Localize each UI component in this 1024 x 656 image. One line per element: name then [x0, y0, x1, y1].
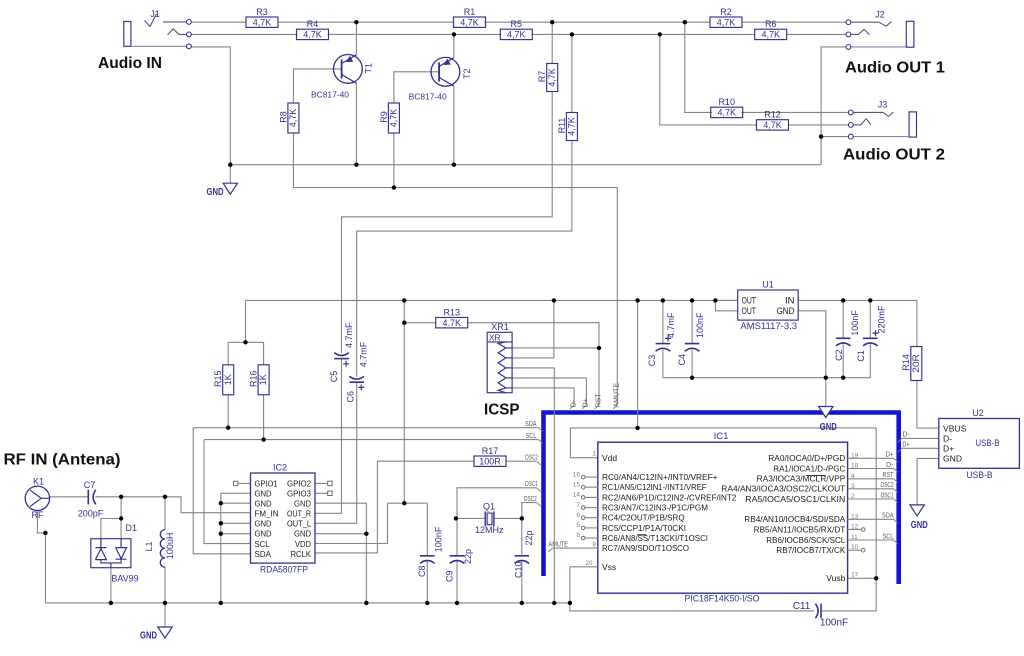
wire IC1 Vusb pin 17 [848, 577, 877, 579]
svg-text:C2: C2 [834, 349, 844, 361]
svg-text:4,7K: 4,7K [288, 109, 298, 128]
junction R10 tap / tip rail [683, 20, 687, 24]
junction R13 left / VDD riser [402, 321, 406, 325]
resistor R13 [436, 307, 468, 328]
svg-text:R17: R17 [482, 446, 499, 456]
resistor R14 [901, 347, 922, 381]
svg-text:GND: GND [255, 490, 272, 499]
wire tap to R10 [685, 22, 712, 112]
svg-text:4,7K: 4,7K [717, 17, 736, 27]
junction 3.3V rail / C3 [661, 298, 665, 302]
junction bottom rail / Vss [568, 601, 572, 605]
junction 3.3V rail / C1 [868, 298, 872, 302]
wire R12 to J3 ring [788, 124, 848, 126]
svg-text:SDA: SDA [882, 513, 894, 520]
resistor R3 [246, 7, 278, 28]
wire U1 OUT pins to rail [715, 299, 737, 301]
svg-text:PIC18F14K50-I/SO: PIC18F14K50-I/SO [685, 593, 760, 604]
svg-text:OSC1: OSC1 [881, 492, 894, 499]
junction T2 collector / ring rail [452, 32, 456, 36]
junction T2 emitter / ground rail [452, 163, 456, 167]
svg-text:RC0/AN4/C12IN+/INT0/VREF+: RC0/AN4/C12IN+/INT0/VREF+ [602, 473, 718, 482]
svg-text:1K: 1K [258, 374, 268, 385]
wire VDD horizontal [388, 502, 428, 504]
junction R9 / AMUTE rail [392, 185, 396, 189]
junction antenna line / D1 [119, 495, 123, 499]
pad GPIO1 unconnected [234, 481, 238, 485]
svg-text:200pF: 200pF [78, 509, 104, 519]
svg-text:1K: 1K [223, 374, 233, 385]
svg-text:6: 6 [576, 512, 580, 519]
wire GND stub bottom left [164, 603, 166, 627]
wire R7 top [551, 22, 553, 63]
svg-text:RF: RF [32, 510, 44, 520]
junction R15-R16 top tee [243, 340, 247, 344]
svg-text:VDD: VDD [295, 540, 311, 549]
junction T1 emitter / ground rail [354, 163, 358, 167]
svg-text:BC817-40: BC817-40 [311, 90, 349, 99]
wire C10 top/bottom [521, 518, 523, 555]
wire C3 top/bottom [662, 300, 664, 343]
IC1 pin 12 stub unconnected [848, 524, 866, 532]
junction R11 tap / ring rail [570, 32, 574, 36]
wire R13 left [404, 322, 436, 324]
junction bottom rail / C9 [455, 601, 459, 605]
svg-text:IC2: IC2 [273, 463, 287, 473]
svg-text:XR: XR [489, 333, 501, 343]
wire C7 to FM_IN / D1 / L1 [95, 497, 250, 513]
svg-text:RA0/IOCA0/D+/PGD: RA0/IOCA0/D+/PGD [768, 454, 845, 463]
wire audio tip rail y=22 J1 to R3 [191, 21, 246, 23]
wire D1 top connections [120, 497, 122, 519]
svg-text:C5: C5 [329, 371, 339, 383]
junction J3 sleeve / ground riser [819, 134, 823, 138]
svg-text:RB5/AN11/IOCB5/RX/DT: RB5/AN11/IOCB5/RX/DT [754, 526, 846, 535]
capacitor C10 22p [514, 530, 535, 578]
svg-text:Q1: Q1 [483, 502, 495, 512]
svg-text:RB6/IOCB6/SCK/SCL: RB6/IOCB6/SCK/SCL [766, 536, 846, 545]
svg-text:R1: R1 [464, 7, 476, 17]
svg-text:GPIO1: GPIO1 [255, 479, 278, 488]
svg-text:18: 18 [851, 463, 859, 470]
svg-text:4,7K: 4,7K [567, 117, 577, 136]
resistor R8 [278, 103, 299, 133]
svg-text:C4: C4 [677, 354, 687, 366]
svg-text:R16: R16 [249, 371, 259, 388]
wire OSC2 net from crystal right [522, 503, 537, 519]
junction Vdd net tee [635, 426, 639, 430]
svg-text:RST: RST [595, 393, 602, 408]
connector J1 audio jack [124, 9, 192, 49]
junction Vusb pin / riser [874, 576, 878, 580]
junction 3.3V rail / IC1 Vdd riser [635, 298, 639, 302]
wire 3.3V vertical to VDD line [403, 300, 405, 503]
svg-text:4,7K: 4,7K [303, 30, 322, 40]
junction T1 collector / tip rail [354, 20, 358, 24]
svg-text:8: 8 [576, 532, 580, 539]
resistor R7 [537, 64, 558, 92]
junction IC2 GND pin5 [219, 521, 223, 525]
resistor R1 [454, 7, 486, 28]
junction 3.3V rail / R13 riser [402, 298, 406, 302]
capacitor C1 220mF [856, 305, 886, 362]
svg-text:4,7K: 4,7K [389, 109, 399, 128]
svg-text:R11: R11 [557, 118, 567, 134]
junction R7 tap / tip rail [550, 20, 554, 24]
wire T2 base to R9 [394, 72, 439, 103]
IC1 pin 10 stub unconnected [848, 544, 866, 552]
net tick AMUTE [613, 405, 617, 409]
svg-text:BAV99: BAV99 [111, 574, 138, 584]
wire crystal Q1 row [456, 517, 485, 519]
svg-text:D+: D+ [886, 452, 894, 459]
svg-text:11: 11 [851, 534, 858, 541]
wire T1 collector [355, 22, 357, 54]
svg-text:5: 5 [576, 522, 580, 529]
junction audio ground rail / J1 sleeve [228, 163, 232, 167]
svg-text:GND: GND [140, 630, 157, 642]
svg-text:C11: C11 [793, 601, 811, 612]
svg-text:C1: C1 [856, 350, 866, 362]
wire ICSP pin3 GND down to bottom rail [512, 368, 554, 603]
svg-text:R8: R8 [278, 111, 288, 123]
svg-text:16: 16 [573, 471, 581, 478]
svg-text:D+: D+ [943, 444, 954, 454]
wire R17 right OSC2 net [506, 460, 536, 462]
svg-text:XR1: XR1 [491, 322, 509, 332]
wire R3 to R1 [278, 21, 454, 23]
junction bottom rail / IC2 GND right [364, 601, 368, 605]
junction IC2 GND pin6 [219, 532, 223, 536]
wire to J3 sleeve [821, 136, 848, 138]
junction bottom rail / C8 [425, 601, 429, 605]
wire ICSP pin1 MCLR [512, 347, 599, 349]
resistor R12 [757, 110, 789, 131]
wire VDD net to IC1 Vdd and Vusb [637, 300, 639, 428]
wire AMUTE rail y=188 [293, 188, 617, 405]
svg-text:U1: U1 [762, 279, 774, 289]
svg-text:13: 13 [851, 513, 859, 520]
svg-text:R6: R6 [765, 19, 777, 29]
ground symbol audio GND [207, 183, 238, 198]
capacitor C5 4.7mF [329, 322, 354, 382]
svg-text:100nF: 100nF [820, 618, 848, 629]
resistor R17 [474, 446, 506, 467]
svg-text:GND: GND [820, 421, 837, 433]
svg-text:FM_IN: FM_IN [255, 510, 279, 519]
svg-text:OSC2: OSC2 [881, 482, 894, 489]
wire GND stub below audio rail [229, 165, 231, 184]
wire R6 to J2 ring [787, 33, 847, 35]
svg-text:IN: IN [785, 296, 795, 306]
svg-text:14: 14 [573, 492, 581, 499]
capacitor C3 4.7mF [647, 312, 676, 366]
wire R14 bottom to USB VBUS [917, 381, 939, 428]
svg-text:C9: C9 [445, 570, 455, 582]
junction crystal right / C10 / OSC2 [520, 516, 524, 520]
svg-text:T2: T2 [462, 68, 472, 79]
transistor T1 BC817-40 [311, 55, 373, 100]
junction 3.3V rail / C2 [841, 298, 845, 302]
svg-text:GPIO3: GPIO3 [287, 490, 311, 499]
svg-text:OSC2: OSC2 [524, 496, 537, 503]
svg-text:RA5/IOCA5/OSC1/CLKIN: RA5/IOCA5/OSC1/CLKIN [745, 495, 845, 504]
junction 3.3V rail / U1 OUT [713, 298, 717, 302]
svg-text:SCL: SCL [526, 433, 537, 440]
wire C6 to IC2 OUT_L [315, 383, 357, 524]
svg-text:2: 2 [851, 493, 855, 500]
pad GPIO2 unconnected [328, 481, 332, 485]
wire R2 to J2 tip [742, 21, 846, 23]
svg-text:RC5/CCP1/P1A/T0CKI: RC5/CCP1/P1A/T0CKI [602, 524, 686, 533]
wire IC2 VDD up to 3.3V [315, 503, 388, 543]
svg-text:7: 7 [576, 502, 580, 509]
svg-text:SDA: SDA [255, 550, 272, 559]
resistor R6 [755, 19, 787, 40]
resistor R2 [710, 7, 742, 28]
wire tap to R12 [660, 34, 757, 125]
wire J1 sleeve to ground rail [191, 47, 230, 165]
junction cap ground rail / U1 GND [824, 376, 828, 380]
svg-text:R5: R5 [511, 19, 523, 29]
wire ICSP pin2 VDD from rail [512, 300, 554, 358]
wire R8 bottom to AMUTE rail [292, 133, 294, 188]
svg-text:100nF: 100nF [850, 310, 860, 336]
junction R12 tap / ring rail [658, 32, 662, 36]
svg-text:U2: U2 [972, 408, 984, 418]
svg-text:OUT_R: OUT_R [287, 510, 311, 519]
wire C5 to IC2 OUT_R [315, 359, 342, 513]
svg-text:RB4/AN10/IOCB4/SDI/SDA: RB4/AN10/IOCB4/SDI/SDA [744, 515, 846, 524]
svg-text:4.7K: 4.7K [442, 318, 461, 328]
wire rail down to R14 [916, 300, 918, 346]
svg-text:SDA: SDA [525, 421, 537, 428]
svg-text:4,7K: 4,7K [717, 108, 736, 118]
svg-text:GND: GND [255, 520, 272, 529]
svg-text:R7: R7 [537, 71, 547, 83]
svg-text:Vusb: Vusb [826, 573, 845, 583]
wire IC2 RCLK to R17 [315, 461, 474, 553]
svg-text:RST: RST [883, 472, 895, 479]
wire R4 to R5 [328, 33, 502, 35]
wire T1 base to R8 [293, 69, 341, 103]
junction IC2 GND right tee [364, 532, 368, 536]
svg-text:4,7K: 4,7K [460, 17, 479, 27]
svg-text:17: 17 [851, 571, 859, 578]
svg-text:4.7mF: 4.7mF [359, 341, 369, 367]
IC1 left pin stubs RC0-RC6 [585, 476, 598, 478]
svg-text:USB-B: USB-B [976, 438, 1000, 448]
svg-text:22p: 22p [463, 549, 473, 564]
svg-text:J3: J3 [878, 100, 888, 110]
wire R11 bottom to C6 [357, 141, 572, 377]
svg-text:1: 1 [592, 451, 596, 458]
svg-text:D-: D- [943, 434, 952, 444]
wire R7 bottom to C5 [342, 92, 553, 354]
wire +3.3V rail y=300 left of U1 [246, 299, 738, 301]
svg-text:Vss: Vss [602, 562, 616, 572]
svg-text:OUT_L: OUT_L [287, 520, 312, 529]
highlight net around IC1 (thick blue) [544, 413, 899, 585]
wire C1 top/bottom [869, 300, 871, 338]
wire R11 top [571, 34, 573, 112]
connector K1 RF input [25, 477, 49, 521]
wire OSC1 net from crystal left [457, 488, 537, 519]
svg-text:GND: GND [207, 186, 224, 198]
svg-text:Audio IN: Audio IN [98, 55, 162, 72]
capacitor C11 100nF [793, 601, 848, 629]
wire capacitors ground rail y=378 [663, 377, 870, 379]
wire ICSP pin5 PGC (D-) [512, 388, 574, 405]
svg-text:R3: R3 [256, 7, 268, 17]
junction SDA line / R15 [226, 426, 230, 430]
svg-text:RCLK: RCLK [291, 550, 312, 559]
svg-text:RA3/IOCA3/MCLR/VPP: RA3/IOCA3/MCLR/VPP [757, 475, 846, 484]
IC1 pin 9 RC7 AMUTE stub [548, 542, 598, 552]
svg-text:C10: C10 [514, 561, 524, 578]
crystal Q1 12MHz [475, 502, 504, 536]
wire U1 GND down to ground symbol [798, 311, 826, 407]
wire T1 emitter to rail [355, 83, 357, 165]
svg-text:100nF: 100nF [695, 312, 705, 338]
svg-text:SCL: SCL [255, 540, 271, 549]
svg-text:22p: 22p [524, 530, 534, 545]
svg-text:L1: L1 [144, 541, 154, 551]
wire T2 emitter to rail [453, 86, 455, 165]
wire R16 bottom to SCL line [263, 395, 265, 440]
wire IC2 GPIO1 stub [238, 482, 250, 484]
IC2 RDA5807FP [251, 463, 316, 576]
svg-text:100R: 100R [479, 456, 501, 466]
svg-text:C3: C3 [647, 355, 657, 367]
svg-text:15: 15 [573, 481, 581, 488]
svg-text:R14: R14 [901, 354, 911, 371]
svg-text:D-: D- [903, 432, 911, 439]
wire K1 shield down to bottom rail [37, 511, 45, 603]
wire ICSP pin4 PGD (D+) [512, 378, 586, 405]
capacitor C2 100nF [834, 310, 860, 361]
svg-text:VBUS: VBUS [943, 423, 967, 433]
svg-text:RA1/IOCA1/D-/PGC: RA1/IOCA1/D-/PGC [773, 464, 845, 473]
wire C2 top/bottom [842, 300, 844, 338]
svg-text:4.7mF: 4.7mF [344, 322, 354, 348]
wire USB D+ stub [902, 447, 939, 449]
junction RST / ICSP pin1 [597, 346, 601, 350]
USB connector U2 USB-B [939, 408, 1020, 481]
resistor R11 [557, 113, 578, 141]
svg-text:RB7/IOCB7/TX/CK: RB7/IOCB7/TX/CK [776, 546, 846, 555]
svg-text:20: 20 [585, 560, 593, 567]
svg-text:GND: GND [294, 500, 311, 509]
wire RST vertical down [598, 348, 600, 405]
svg-text:J1: J1 [150, 9, 160, 19]
wire audio ground rail y=165 [230, 164, 821, 166]
wire L1 top/bottom [164, 497, 166, 530]
ground symbol bottom GND [140, 627, 172, 642]
junction cap ground rail / C4 [690, 376, 694, 380]
wire SCL line [204, 439, 539, 441]
resistor R4 [297, 19, 329, 40]
wire C8 top / bottom [426, 503, 428, 555]
wire bottom ground rail y=603 [45, 602, 570, 604]
svg-text:OSC2: OSC2 [525, 454, 538, 461]
svg-text:GND: GND [943, 454, 962, 464]
svg-text:D-: D- [886, 462, 894, 469]
svg-text:AMS1117-3.3: AMS1117-3.3 [740, 321, 797, 332]
capacitor C4 100nF [677, 312, 705, 366]
svg-text:4.7mF: 4.7mF [666, 312, 676, 338]
svg-text:220mF: 220mF [876, 305, 886, 334]
svg-text:RC4/C2OUT/P1B/SRQ: RC4/C2OUT/P1B/SRQ [602, 514, 685, 523]
inductor L1 100uH [144, 530, 175, 568]
svg-text:4,7K: 4,7K [253, 17, 272, 27]
wire R5 to R6 [532, 33, 755, 35]
wire R1 to R2 [485, 21, 711, 23]
svg-text:RC3/AN7/C12IN3-/P1C/PGM: RC3/AN7/C12IN3-/P1C/PGM [602, 503, 708, 512]
svg-text:D-: D- [570, 399, 577, 407]
junction antenna line / L1 [163, 495, 167, 499]
svg-text:GND: GND [255, 530, 272, 539]
capacitor C8 100nF [417, 526, 444, 577]
svg-text:12MHz: 12MHz [475, 525, 504, 535]
svg-text:4,7K: 4,7K [763, 120, 782, 130]
svg-text:RC6/AN8/SS/T13CKI/T1OSCI: RC6/AN8/SS/T13CKI/T1OSCI [602, 534, 708, 543]
svg-text:R9: R9 [379, 111, 389, 123]
svg-text:J2: J2 [875, 10, 885, 20]
capacitor C7 200pF [78, 480, 104, 519]
wire rail down to R15/R16 tops [245, 300, 247, 342]
svg-text:SCL: SCL [883, 533, 894, 540]
svg-text:BC817-40: BC817-40 [409, 93, 447, 102]
svg-text:RC7/AN9/SDO/T1OSCO: RC7/AN9/SDO/T1OSCO [602, 544, 689, 553]
junction bottom rail / D1 [109, 601, 113, 605]
svg-text:12: 12 [851, 524, 859, 531]
diode D1 BAV99 [91, 523, 139, 584]
wire SDA line [193, 427, 539, 429]
ground symbol U1 GND [819, 407, 837, 434]
svg-text:RF IN (Antena): RF IN (Antena) [4, 452, 121, 469]
IC1 PIC18F14K50-I/SO [598, 431, 848, 604]
wire IC1 Vss pin 20 [570, 567, 598, 603]
svg-text:GND: GND [255, 500, 272, 509]
svg-text:Vdd: Vdd [602, 453, 617, 463]
wire D1 common to bottom rail [110, 568, 112, 603]
svg-text:19: 19 [851, 452, 859, 459]
svg-text:GPIO2: GPIO2 [287, 479, 311, 488]
resistor R10 [711, 97, 743, 118]
svg-text:4,7K: 4,7K [507, 30, 526, 40]
junction IC2 GND pin3 [219, 501, 223, 505]
junction D1 top tee [119, 516, 123, 520]
wire T2 collector [453, 34, 455, 57]
svg-text:RC2/AN6/P1D/C12IN2-/CVREF/INT2: RC2/AN6/P1D/C12IN2-/CVREF/INT2 [602, 493, 736, 502]
resistor R16 [249, 365, 270, 395]
svg-text:R4: R4 [307, 19, 319, 29]
wire Vusb down to C11 [821, 578, 876, 611]
svg-text:USB-B: USB-B [967, 470, 993, 481]
svg-text:R15: R15 [213, 371, 223, 388]
svg-text:4,7K: 4,7K [761, 30, 780, 40]
connector J2 audio jack [846, 10, 914, 50]
svg-text:100uH: 100uH [165, 533, 175, 560]
svg-text:D+: D+ [903, 441, 910, 448]
wire R9 bottom to AMUTE rail [393, 133, 395, 188]
connector XR1 ICSP header [487, 322, 512, 393]
wire IC2 right GND pins to bottom rail [315, 503, 366, 603]
junction bottom rail / IC2 GND left [219, 601, 223, 605]
svg-text:OSC1: OSC1 [525, 481, 538, 488]
junction SCL line / R16 [261, 437, 265, 441]
